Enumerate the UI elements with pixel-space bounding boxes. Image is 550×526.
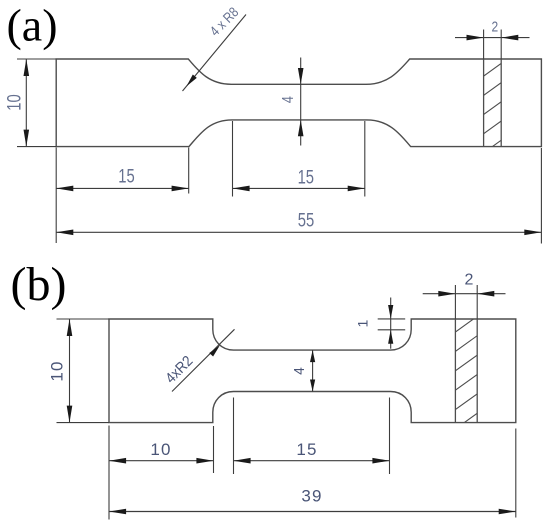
dim 4 (a): dimension line — [300, 58, 302, 146]
dim 10 (b): dimension line — [69, 319, 71, 423]
dim 10 (b): up arrow — [67, 319, 73, 336]
dim 15 left (a): dimension line — [56, 187, 189, 189]
dim 10 (a): bottom extension line — [17, 146, 56, 148]
dim 55 (a): left arrow — [56, 230, 73, 236]
svg-text:39: 39 — [301, 487, 322, 506]
dim 10 (a): down arrow — [24, 130, 30, 147]
dim 15 (b): dimension line — [234, 460, 390, 462]
svg-text:2: 2 — [465, 272, 474, 289]
svg-text:(a): (a) — [6, 0, 57, 51]
leader 4xR2 (b): line — [172, 329, 235, 391]
dim 4 (b): down arrow — [310, 380, 315, 392]
dim 10 (a): dimension line — [25, 59, 27, 147]
leader 4xR8 (a): line — [183, 15, 247, 92]
dim 10 (b): top extension line — [57, 318, 110, 320]
dim 2 (b): right arrow (points left) — [477, 291, 494, 297]
svg-text:4: 4 — [280, 96, 298, 103]
svg-text:4: 4 — [292, 367, 309, 375]
svg-text:55: 55 — [298, 210, 314, 231]
svg-text:10: 10 — [4, 94, 25, 110]
dim 15 right (a): right arrow — [348, 186, 365, 192]
hatch lines (b) — [453, 314, 480, 430]
dim 2 (b): right extension line — [476, 285, 478, 319]
dim 10 bottom (b): right arrow — [196, 458, 213, 464]
dim 15 left (a): right arrow — [172, 186, 189, 192]
dim 39 (b): right extension line — [515, 429, 517, 518]
leader 4xR2 (b): arrowhead — [209, 345, 220, 356]
dim 2 (b): dimension line — [423, 293, 506, 295]
dim 1 (b): lower arrow (up) — [388, 330, 393, 344]
dim 10 (b): down arrow — [67, 406, 73, 423]
dim 1 (b): upper arrow (down) — [388, 305, 393, 319]
specimen (b) outline — [109, 319, 516, 423]
dim 10 (a): top extension line — [17, 58, 56, 60]
hatch lines (a) — [481, 61, 504, 154]
dim 15 right (a): right extension line — [364, 121, 366, 197]
dim 39 (b): dimension line — [109, 511, 516, 513]
hatch band (b) right boundary — [476, 319, 478, 423]
svg-text:15: 15 — [118, 166, 134, 187]
svg-text:15: 15 — [298, 167, 314, 188]
dim 39 (b): right arrow — [499, 509, 516, 515]
dim 15 (b): left arrow — [234, 458, 251, 464]
dim 15 right (a): left extension line — [232, 121, 234, 197]
dim 15 right (a): dimension line — [233, 187, 365, 189]
dim 1 (b): lower tick — [378, 329, 406, 331]
svg-text:(b): (b) — [11, 258, 67, 311]
dim 10 bottom (b): dimension line — [109, 460, 214, 462]
dim 39 (b): left arrow — [109, 509, 126, 515]
dim 4 (b): up arrow — [310, 350, 315, 362]
dim 1 (b): upper tick — [378, 318, 406, 320]
svg-text:10: 10 — [48, 360, 67, 381]
dim 15 (b): left extension line — [233, 398, 235, 475]
dim 10 bottom (b): right extension line — [213, 426, 215, 473]
dim 15 left (a): right extension line — [188, 148, 190, 194]
specimen (a) outline — [56, 59, 541, 147]
hatch band (a) left boundary — [483, 59, 485, 147]
svg-text:2: 2 — [491, 18, 498, 35]
dim 55 (a): dimension line — [56, 231, 541, 233]
svg-text:15: 15 — [296, 440, 317, 459]
dim 2 (a): right arrow (points left) — [501, 35, 518, 41]
svg-text:10: 10 — [150, 440, 171, 459]
dim 10 (b): bottom extension line — [57, 422, 110, 424]
dim 4 (a): bottom arrow (up) — [298, 120, 304, 136]
dim 4 (a): top arrow (down) — [298, 68, 304, 84]
dim 10 (a): up arrow — [24, 59, 30, 76]
svg-text:1: 1 — [355, 319, 371, 327]
dim 2 (a): left arrow (points right) — [467, 35, 484, 41]
dim 15 right (a): left arrow — [233, 186, 250, 192]
dim 4 (b): dimension line — [312, 350, 314, 391]
hatch band (b) left boundary — [454, 319, 456, 423]
dim 2 (a): left extension line — [483, 30, 485, 60]
dim 10 bottom (b): left arrow — [109, 458, 126, 464]
dim 55 (a): right arrow — [524, 230, 541, 236]
dim 15 (b): right arrow — [372, 458, 389, 464]
dim 15 left (a): left arrow — [56, 186, 73, 192]
dim 2 (b): left extension line — [454, 285, 456, 319]
dim 15 (b): right extension line — [389, 398, 391, 475]
dim 2 (b): left arrow (points right) — [438, 291, 455, 297]
shared extension line x=56 (a) — [55, 148, 57, 244]
shared extension line x=109 (b) — [108, 426, 110, 520]
dim 1 (b): dimension line — [390, 298, 392, 349]
dim 55 (a): right extension line — [540, 148, 542, 244]
hatch band (a) right boundary — [500, 59, 502, 147]
dim 2 (a): right extension line — [500, 30, 502, 60]
dim 2 (a): dimension line — [455, 37, 530, 39]
leader 4xR8 (a): arrowhead — [187, 75, 197, 87]
